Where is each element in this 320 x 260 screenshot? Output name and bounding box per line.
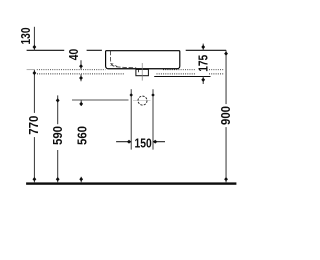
svg-text:590: 590	[51, 126, 65, 145]
svg-text:150: 150	[135, 136, 152, 150]
svg-text:770: 770	[27, 116, 41, 135]
svg-text:560: 560	[75, 126, 89, 145]
svg-text:130: 130	[19, 28, 33, 45]
svg-text:900: 900	[219, 106, 233, 125]
svg-text:175: 175	[197, 55, 211, 72]
svg-text:40: 40	[67, 49, 81, 60]
